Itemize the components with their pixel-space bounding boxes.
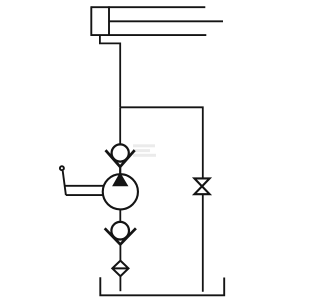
wire check valve V2 to filter F1 — [119, 244, 121, 261]
wire filter to tank — [119, 276, 121, 291]
wire node A down to check valve V1 — [119, 107, 121, 145]
hand pump P1 — [103, 174, 138, 210]
tank T1 — [100, 277, 224, 295]
wire pump to check valve V2 — [119, 209, 121, 222]
shut-off valve V3 — [194, 178, 209, 194]
check valve V1 — [106, 144, 135, 175]
pump lever handle — [60, 166, 104, 195]
check valve V2 — [105, 222, 136, 245]
cylinder C1 — [91, 6, 223, 36]
wire valve V3 to tank — [202, 194, 204, 292]
watermark — [133, 144, 156, 157]
wire cylinder to node A — [100, 35, 120, 107]
filter F1 — [112, 261, 128, 277]
wire branch node A to valve V3 — [120, 107, 203, 178]
